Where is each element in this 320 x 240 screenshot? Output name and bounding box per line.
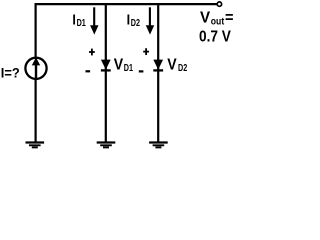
svg-text:0.7 V: 0.7 V: [199, 29, 231, 46]
ground D2 branch: [149, 143, 168, 148]
node Vout output terminal: [217, 2, 221, 6]
diode D1: [101, 60, 111, 71]
diode D2: [153, 60, 163, 71]
polarity plus of D1: [89, 49, 95, 56]
svg-text:out: out: [211, 17, 225, 28]
svg-text:V: V: [114, 57, 124, 74]
wire left branch from rail to current source: [34, 3, 36, 59]
svg-text:I: I: [127, 12, 131, 28]
label Vout=: [200, 10, 234, 28]
polarity plus of D2: [143, 48, 149, 55]
wire D1 branch: [105, 3, 107, 142]
svg-text:D2: D2: [131, 18, 141, 29]
svg-text:D1: D1: [77, 18, 87, 29]
current arrow ID2: [146, 7, 154, 34]
wire top rail: [35, 3, 218, 5]
svg-text:D1: D1: [124, 63, 134, 74]
svg-text:D2: D2: [178, 63, 188, 74]
svg-text:V: V: [200, 10, 211, 27]
current arrow ID1: [90, 7, 98, 34]
ground D1 branch: [97, 143, 116, 148]
svg-text:V: V: [167, 57, 177, 74]
ground left branch: [26, 143, 45, 148]
polarity minus of D1: [86, 70, 91, 72]
current source I1: [25, 57, 46, 79]
polarity minus of D2: [139, 70, 144, 72]
svg-text:I=?: I=?: [1, 65, 20, 81]
svg-text:=: =: [225, 10, 234, 27]
wire left branch from current source to ground: [34, 78, 36, 142]
svg-text:I: I: [72, 12, 76, 28]
wire D2 branch: [157, 3, 159, 142]
